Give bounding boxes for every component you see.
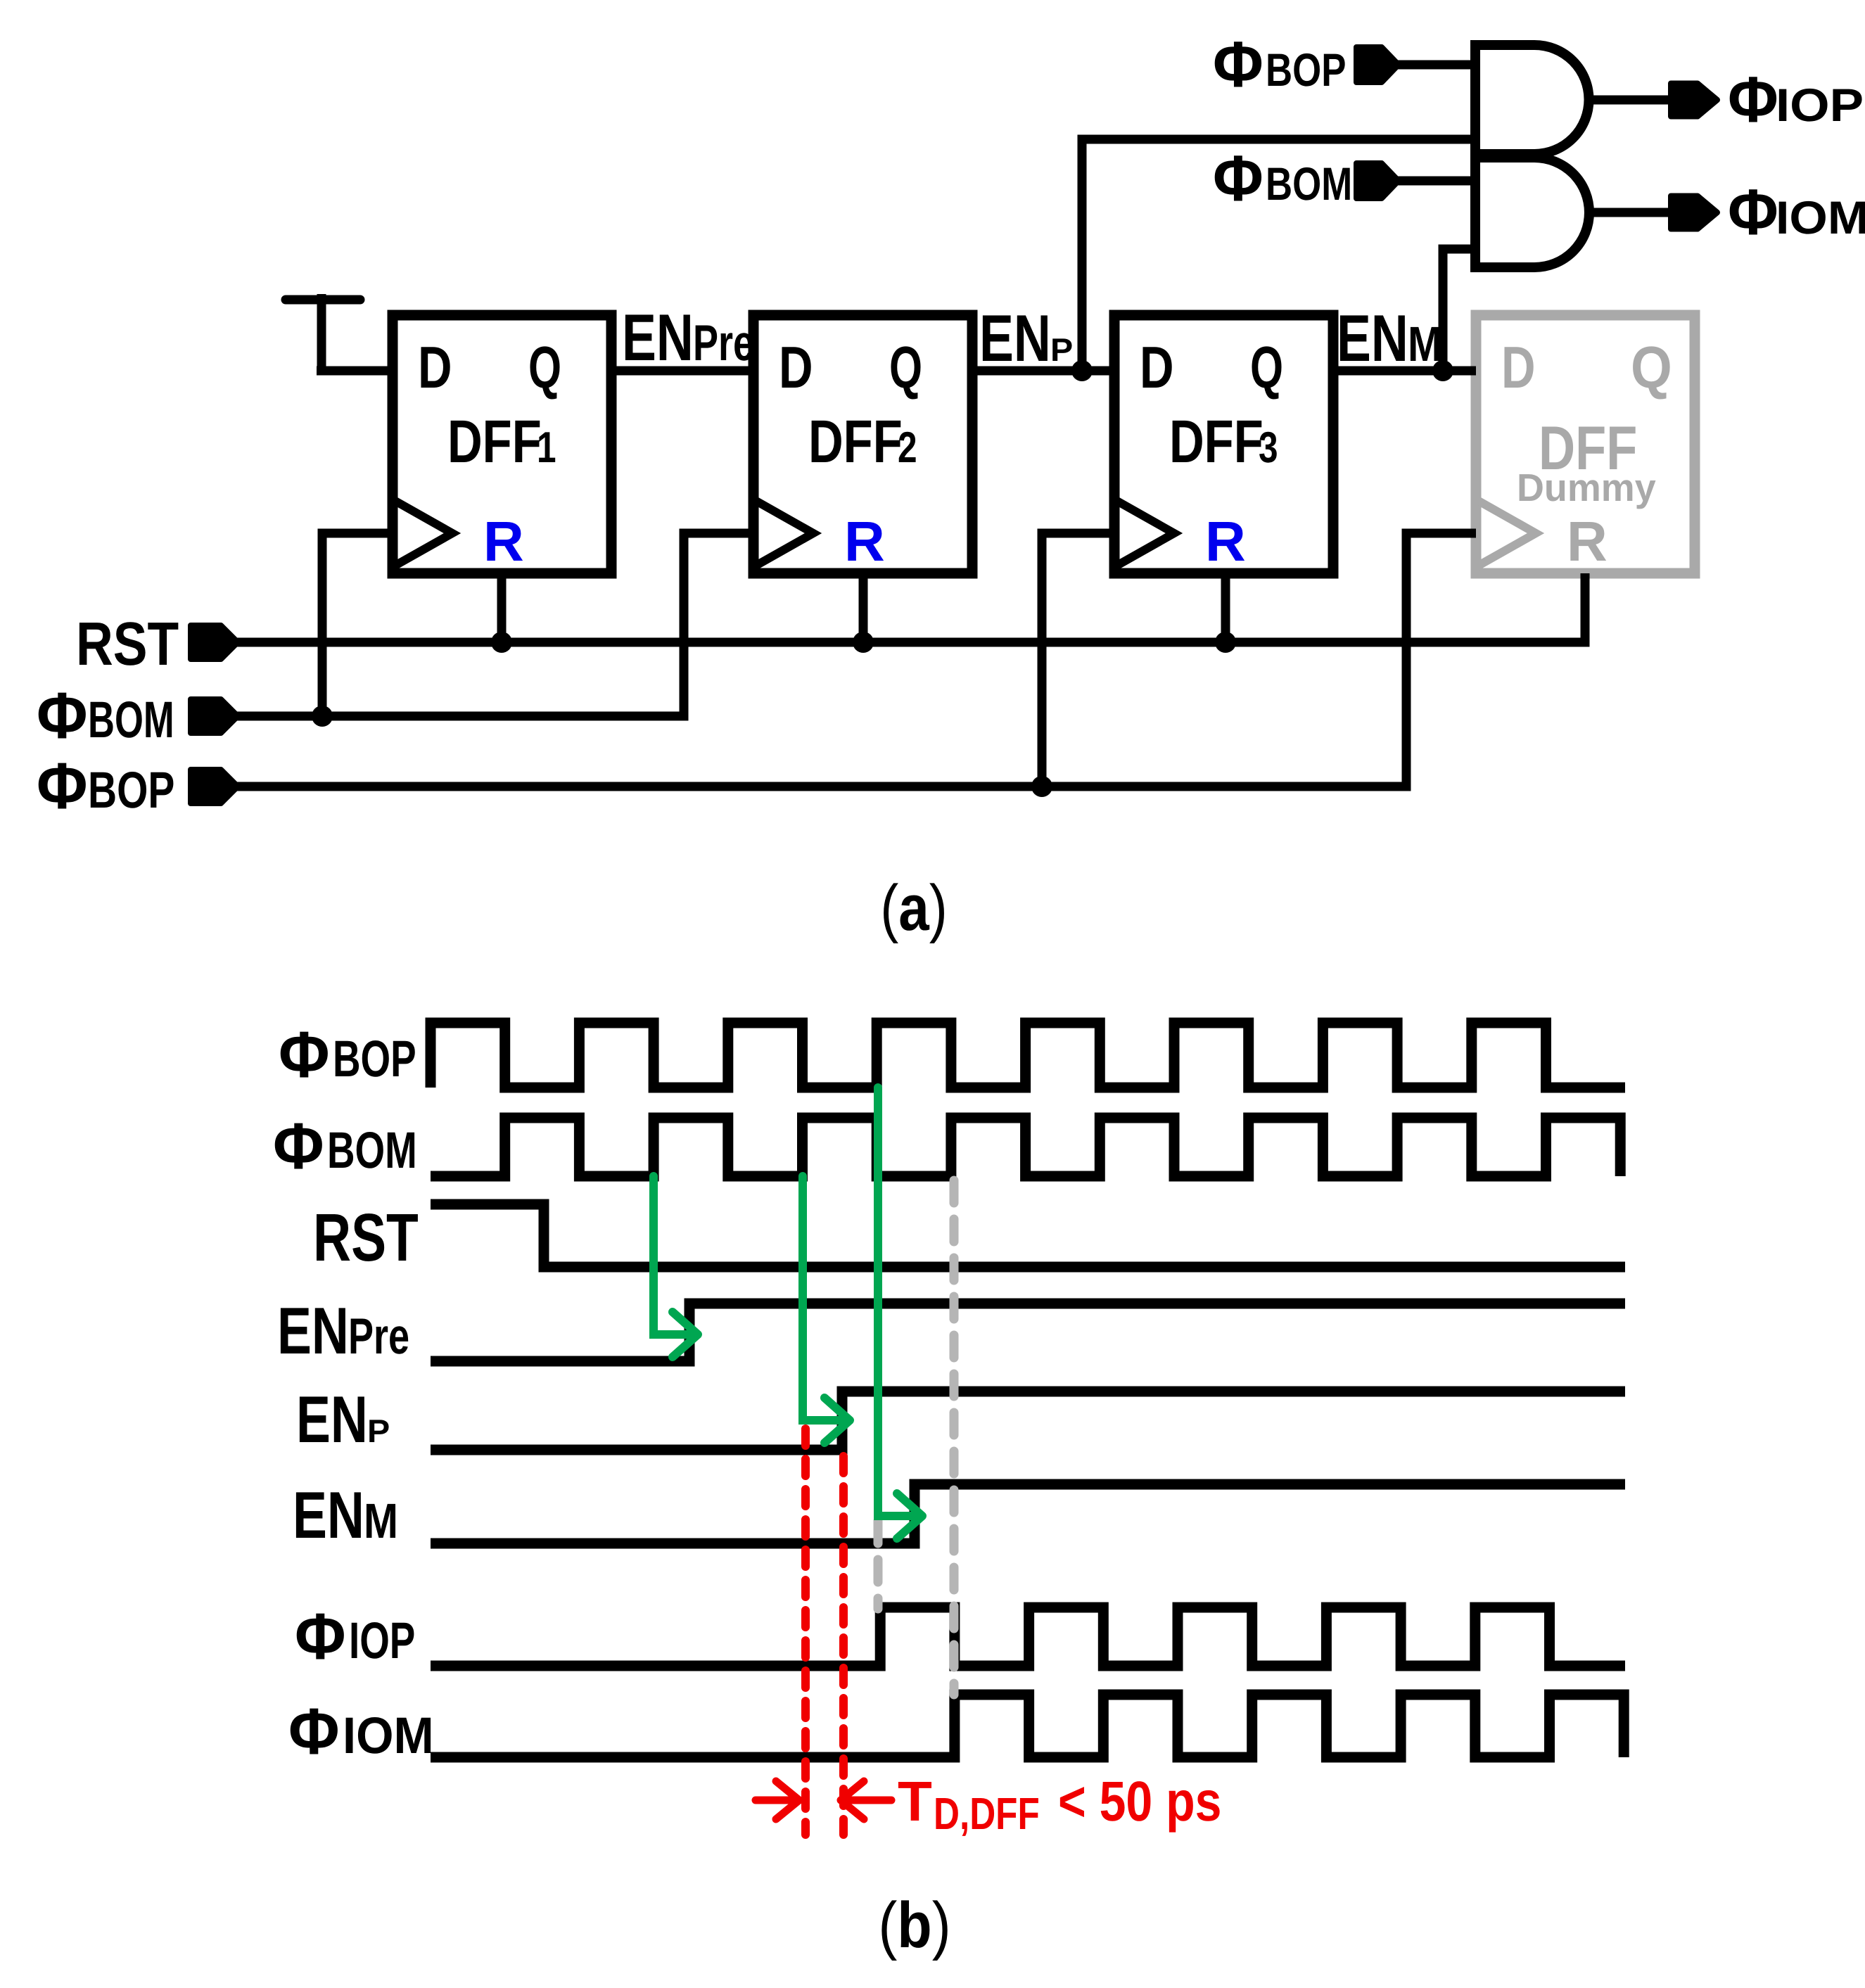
DFF3 label — [1169, 408, 1278, 476]
D flip-flop DFF Dummy box — [1476, 315, 1695, 573]
svg-text:DFF: DFF — [808, 408, 903, 476]
svg-text:BOM: BOM — [88, 692, 174, 748]
signal label ENPre — [277, 1294, 409, 1368]
green arrow: PhiBOM edge to ENPre rise — [654, 1176, 695, 1334]
wire PhiBOP to U1 — [1396, 60, 1475, 70]
svg-text:P: P — [367, 1413, 390, 1449]
node RST-DFF2R junction — [853, 632, 874, 653]
svg-text:Q: Q — [1250, 334, 1283, 400]
svg-text:DFF: DFF — [447, 408, 542, 476]
svg-text:Φ: Φ — [37, 749, 88, 822]
DFF2 pin label R — [844, 510, 885, 573]
AND gate U2 (PhiBOM AND ENM) — [1475, 158, 1589, 267]
net label ENM — [1337, 301, 1442, 375]
svg-text:RST: RST — [313, 1200, 419, 1275]
svg-text:Pre: Pre — [693, 315, 754, 371]
input port RST — [76, 610, 179, 678]
DFF1 pin label Q — [528, 334, 561, 400]
output port PhiIOM — [1671, 196, 1717, 229]
svg-text:T: T — [898, 1770, 932, 1833]
svg-text:Φ: Φ — [37, 679, 88, 752]
DFF Dummy pin label R — [1567, 510, 1608, 573]
svg-text:(b): (b) — [878, 1890, 950, 1961]
wire DFF3 R pin — [1221, 573, 1230, 642]
DFF1 pin label R — [483, 510, 524, 573]
green arrow: PhiBOM edge to ENP rise — [803, 1176, 847, 1420]
svg-text:Q: Q — [889, 334, 922, 400]
wire PhiBOM to U2 — [1396, 177, 1475, 186]
red arrow pointing left at second dashed line — [842, 1797, 891, 1804]
svg-text:Φ: Φ — [1213, 29, 1264, 101]
svg-text:EN: EN — [296, 1382, 368, 1456]
gray dashed guide at PhiBOM rise / PhiIOM first rise — [950, 1180, 959, 1695]
svg-text:Φ: Φ — [279, 1018, 330, 1091]
svg-text:Q: Q — [1631, 334, 1672, 400]
signal label ENM — [293, 1478, 398, 1552]
svg-text:BOP: BOP — [333, 1031, 416, 1088]
svg-text:Q: Q — [528, 334, 561, 400]
wire U2 output — [1588, 208, 1673, 217]
wire ENM to AND gate U2 input — [1443, 249, 1475, 371]
svg-text:Φ: Φ — [288, 1695, 340, 1768]
DFF2 pin label Q — [889, 334, 922, 400]
waveform PhiIOP — [431, 1607, 1625, 1666]
node RST-DFF3R junction — [1215, 632, 1236, 653]
waveform ENP — [431, 1391, 1625, 1450]
green arrow: PhiBOP edge to ENM rise — [878, 1088, 919, 1516]
svg-text:BOM: BOM — [1266, 158, 1352, 210]
waveform ENM — [431, 1484, 1625, 1543]
output port PhiIOP — [1671, 84, 1717, 117]
waveform PhiBOP — [431, 1023, 1625, 1088]
signal label RST — [313, 1200, 419, 1275]
svg-text:EN: EN — [277, 1294, 349, 1368]
D flip-flop DFF1 box — [393, 315, 611, 573]
DFF3 clock wedge — [1114, 499, 1174, 567]
svg-text:EN: EN — [979, 301, 1051, 375]
node PhiBOM-DFF1clk junction — [312, 706, 333, 727]
svg-text:D: D — [779, 334, 813, 400]
svg-text:Pre: Pre — [348, 1308, 409, 1365]
svg-text:IOM: IOM — [343, 1707, 434, 1764]
caption (a) — [880, 872, 948, 944]
waveform PhiBOM — [431, 1118, 1620, 1176]
red dashed line at clock edge — [801, 1429, 810, 1835]
svg-text:D: D — [1140, 334, 1174, 400]
D flip-flop DFF3 box — [1114, 315, 1333, 573]
node ENM junction — [1432, 360, 1453, 381]
DFF2 label — [808, 408, 917, 476]
DFF Dummy clock wedge — [1476, 499, 1536, 567]
svg-text:(a): (a) — [880, 872, 948, 944]
red arrow pointing right at first dashed line — [756, 1797, 798, 1804]
signal label ENP — [296, 1382, 390, 1456]
svg-text:D,DFF: D,DFF — [934, 1788, 1040, 1839]
svg-text:DFF: DFF — [1169, 408, 1264, 476]
node PhiBOP-DFF3clk junction — [1031, 776, 1052, 797]
svg-text:IOP: IOP — [1776, 79, 1864, 131]
wire DFF1.Q to DFF2.D (net ENPre) — [611, 367, 753, 376]
wire ENP to AND gate U1 input — [1082, 139, 1475, 371]
svg-text:R: R — [844, 510, 885, 573]
signal label PhiBOM — [273, 1109, 417, 1183]
label TD,DFF < 50 ps — [898, 1770, 1221, 1839]
DFF3 pin label R — [1205, 510, 1246, 573]
wire DFF3.Q to Dummy.D (net ENM) — [1334, 367, 1476, 376]
svg-text:RST: RST — [76, 610, 179, 678]
svg-text:R: R — [1205, 510, 1246, 573]
caption (b) — [878, 1890, 950, 1961]
svg-text:D: D — [418, 334, 452, 400]
waveform RST — [431, 1204, 1625, 1267]
DFF2 pin label D — [779, 334, 813, 400]
node ENP junction — [1071, 360, 1093, 381]
svg-text:EN: EN — [622, 300, 694, 374]
DFF3 pin label D — [1140, 334, 1174, 400]
wire PhiBOM bus — [236, 533, 753, 716]
svg-text:3: 3 — [1259, 423, 1278, 472]
DFF1 pin label D — [418, 334, 452, 400]
wire tie-high to DFF1 D — [317, 367, 393, 376]
svg-text:Φ: Φ — [1728, 64, 1778, 136]
waveform ENPre — [431, 1304, 1625, 1361]
svg-text:EN: EN — [293, 1478, 364, 1552]
svg-text:M: M — [364, 1493, 398, 1548]
svg-text:Φ: Φ — [295, 1600, 346, 1673]
svg-text:2: 2 — [898, 423, 917, 472]
svg-text:R: R — [483, 510, 524, 573]
wire PhiBOP bus — [236, 533, 1476, 786]
svg-text:Dummy: Dummy — [1517, 466, 1656, 509]
DFF3 pin label Q — [1250, 334, 1283, 400]
wire DFF1 clock — [322, 533, 393, 716]
DFF1 clock wedge — [393, 499, 452, 567]
svg-text:< 50 ps: < 50 ps — [1058, 1770, 1221, 1833]
svg-text:Φ: Φ — [1213, 143, 1264, 215]
waveform PhiIOM — [431, 1695, 1624, 1757]
svg-text:D: D — [1501, 334, 1536, 400]
DFF2 clock wedge — [753, 499, 813, 567]
wire DFF2.Q to DFF3.D (net ENP) — [972, 367, 1114, 376]
signal label PhiIOM — [288, 1695, 434, 1768]
svg-text:IOP: IOP — [349, 1612, 415, 1669]
wire DFF1 R pin — [497, 573, 507, 642]
node RST-DFF1R junction — [491, 632, 512, 653]
red dashed line at ENP rise — [839, 1456, 848, 1835]
tie-high symbol at DFF1 D input — [286, 295, 360, 305]
DFF Dummy pin label Q — [1631, 334, 1672, 400]
wire U1 output — [1588, 96, 1673, 105]
gray dashed guide at PhiBOP rise / PhiIOP first rise — [874, 1521, 883, 1609]
input port PhiBOP (top) — [1213, 29, 1346, 101]
DFF Dummy pin label D — [1501, 334, 1536, 400]
svg-text:Φ: Φ — [1728, 177, 1778, 248]
svg-text:BOP: BOP — [1266, 44, 1346, 96]
input port PhiBOM (top) — [1213, 143, 1352, 215]
DFF1 label — [447, 408, 556, 476]
signal label PhiBOP — [279, 1018, 416, 1091]
net label ENPre — [622, 300, 754, 374]
svg-text:Φ: Φ — [273, 1109, 324, 1183]
wire RST bus — [236, 573, 1585, 642]
input port PhiBOP (left) — [37, 749, 174, 822]
DFF Dummy label — [1539, 413, 1637, 483]
wire DFF2 R pin — [859, 573, 868, 642]
svg-text:1: 1 — [537, 423, 556, 472]
svg-text:R: R — [1567, 510, 1608, 573]
svg-text:IOM: IOM — [1776, 191, 1865, 243]
net label ENP — [979, 301, 1073, 375]
input port PhiBOM (left) — [37, 679, 174, 752]
D flip-flop DFF2 box — [753, 315, 972, 573]
svg-text:BOM: BOM — [327, 1122, 417, 1179]
signal label PhiIOP — [295, 1600, 415, 1673]
svg-text:P: P — [1050, 331, 1073, 368]
wire DFF3 clock — [1042, 533, 1114, 786]
svg-text:BOP: BOP — [88, 762, 174, 819]
AND gate U1 (PhiBOP AND ENP) — [1475, 45, 1589, 154]
svg-text:EN: EN — [1337, 301, 1408, 375]
